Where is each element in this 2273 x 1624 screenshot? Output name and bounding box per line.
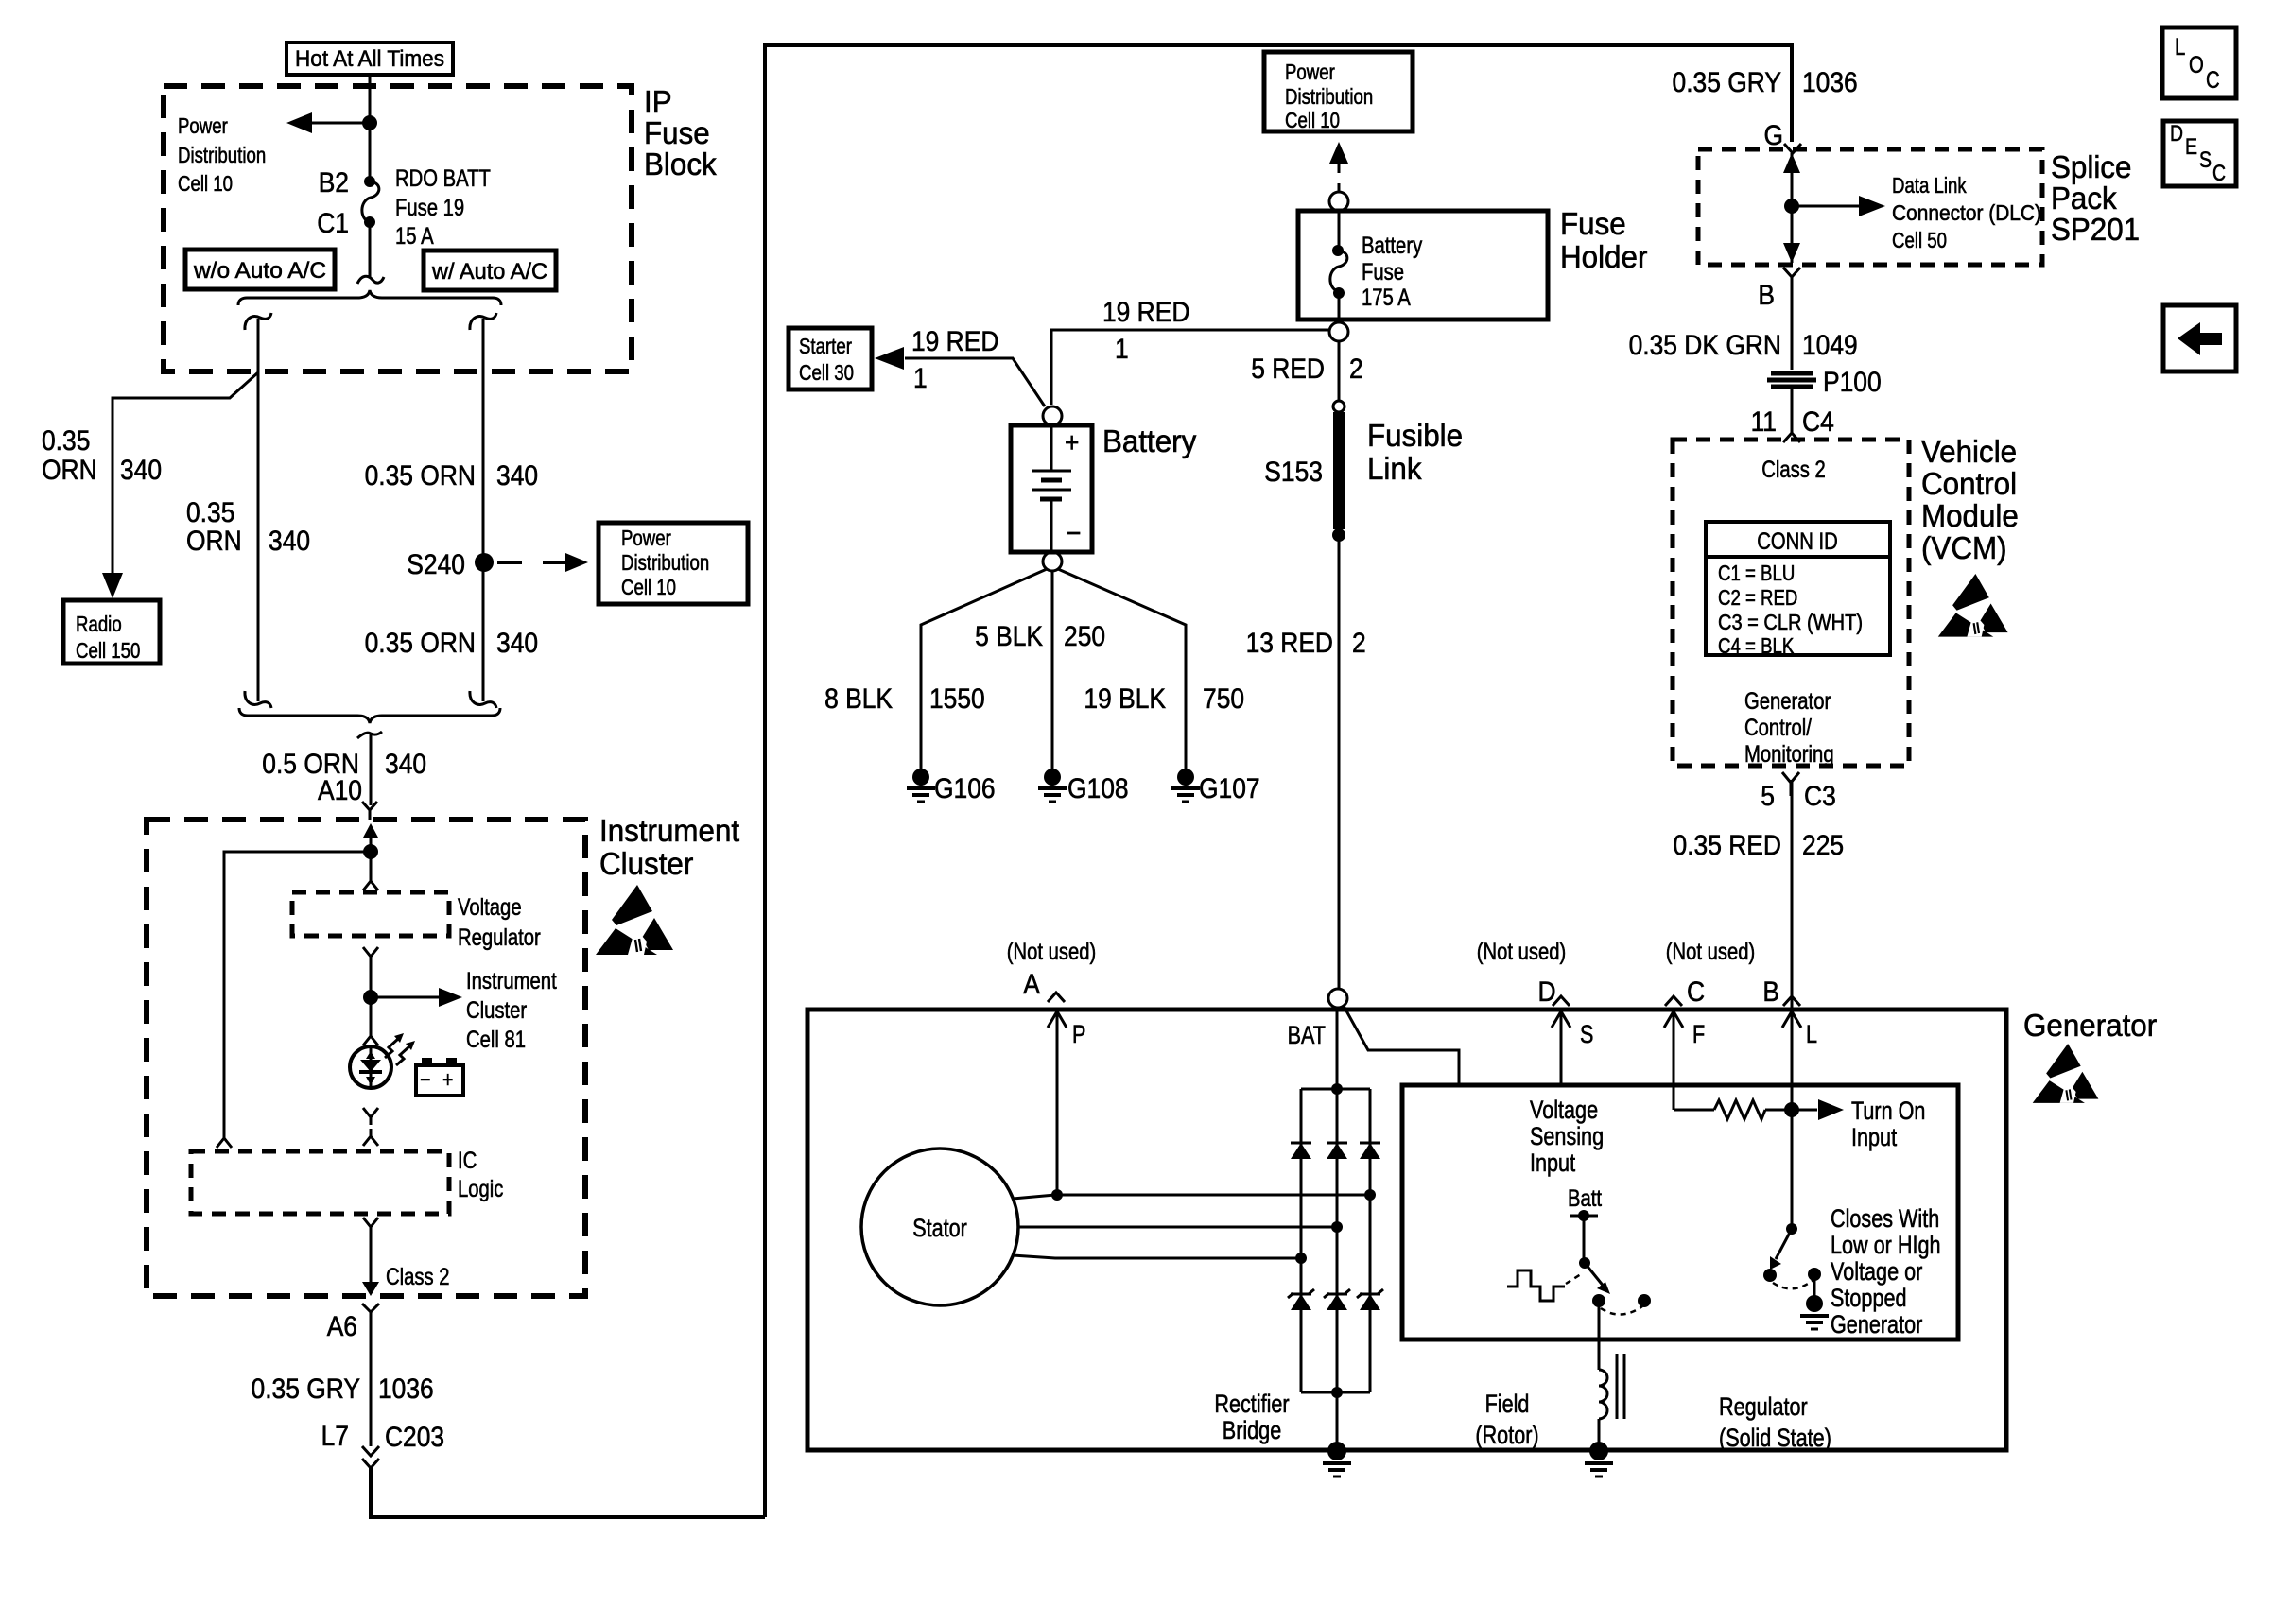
svg-text:w/ Auto A/C: w/ Auto A/C <box>431 259 547 285</box>
title Vehicle Control Module (VCM) <box>1921 434 2019 565</box>
left branch connector curl top <box>245 313 271 330</box>
wire 0.35 RED 225 down to generator <box>1791 780 1794 1008</box>
ESD symbol (instrument cluster) <box>596 885 673 955</box>
svg-text:0.35 ORN: 0.35 ORN <box>365 628 476 659</box>
label box "Hot At All Times" <box>286 43 453 75</box>
svg-text:B2: B2 <box>319 167 349 199</box>
svg-text:0.35 GRY: 0.35 GRY <box>252 1373 361 1405</box>
voltage regulator switch (field) <box>1579 1257 1651 1315</box>
svg-text:(Not used): (Not used) <box>1666 939 1756 965</box>
label 19 RED 1 (fuse holder line) <box>1102 297 1189 365</box>
dashed link square wave to switch <box>1566 1274 1581 1284</box>
entry arrow up on A10 wire <box>363 823 378 852</box>
svg-text:Data Link: Data Link <box>1892 173 1967 198</box>
node rectifier bottom <box>1331 1387 1343 1398</box>
svg-text:Battery: Battery <box>1102 423 1197 458</box>
svg-text:G106: G106 <box>934 773 996 804</box>
field coil (rotor) <box>1599 1354 1624 1419</box>
connector fork below LED <box>363 1108 378 1125</box>
svg-text:O: O <box>2189 52 2204 78</box>
svg-text:340: 340 <box>385 749 426 780</box>
svg-text:Instrument: Instrument <box>599 813 739 848</box>
svg-text:(Not used): (Not used) <box>1477 939 1567 965</box>
label 0.35 GRY 1036 <box>252 1373 434 1405</box>
label Turn On Input <box>1851 1097 1925 1151</box>
ground G106 <box>907 769 996 804</box>
battery negative terminal ring <box>1043 552 1062 571</box>
label 8 BLK 1550 <box>824 683 985 715</box>
svg-text:(Not used): (Not used) <box>1007 939 1097 965</box>
arrow to Instrument Cluster Cell 81 <box>371 988 462 1007</box>
connector fork above voltage regulator <box>363 873 378 890</box>
svg-text:1036: 1036 <box>1802 67 1858 98</box>
svg-text:Control/: Control/ <box>1744 715 1812 741</box>
diode top right <box>1360 1143 1380 1159</box>
svg-text:Input: Input <box>1851 1123 1897 1151</box>
label 0.35 ORN 340 (left wire) <box>186 497 310 557</box>
arrow to starter <box>875 347 904 370</box>
svg-text:A6: A6 <box>327 1311 357 1342</box>
svg-text:G108: G108 <box>1067 773 1129 804</box>
svg-text:Link: Link <box>1367 451 1422 486</box>
double chevron connector C203 <box>362 1446 379 1468</box>
svg-text:S240: S240 <box>407 549 465 580</box>
variant box "w/o Auto A/C" <box>185 250 335 289</box>
svg-text:−: − <box>1067 518 1081 549</box>
Voltage Regulator dashed box <box>292 892 449 936</box>
svg-text:Voltage: Voltage <box>1530 1096 1598 1124</box>
wire 13 RED 2 down to generator <box>1338 535 1341 989</box>
svg-text:G107: G107 <box>1199 773 1260 804</box>
diode top left <box>1291 1143 1311 1159</box>
svg-text:Logic: Logic <box>458 1176 503 1202</box>
arrow down inside splice <box>1783 243 1800 263</box>
node P junction <box>1051 1189 1063 1201</box>
svg-text:L: L <box>2175 34 2185 60</box>
svg-text:Voltage: Voltage <box>458 894 522 921</box>
Generator box <box>807 1010 2006 1450</box>
field wire from switch contact down <box>1598 1301 1601 1370</box>
svg-text:IP: IP <box>644 84 672 119</box>
LOC box <box>2162 27 2236 98</box>
wire from C203 to frame <box>371 1468 765 1517</box>
connector fork below IC logic <box>363 1218 378 1236</box>
node right rail <box>1364 1189 1376 1201</box>
node left rail <box>1295 1253 1307 1264</box>
svg-text:Cell 10: Cell 10 <box>621 575 676 599</box>
svg-text:5 BLK: 5 BLK <box>975 621 1043 652</box>
connector chevron below cluster <box>362 1304 379 1312</box>
svg-text:Input: Input <box>1530 1149 1575 1177</box>
title IP Fuse Block <box>644 84 717 181</box>
square wave symbol <box>1507 1270 1565 1301</box>
node L/turn-on junction <box>1784 1102 1799 1117</box>
svg-text:Distribution: Distribution <box>178 143 266 167</box>
right 0.35 ORN 340 wire (w/ A/C) <box>482 319 485 701</box>
svg-text:C203: C203 <box>385 1422 444 1453</box>
svg-text:1550: 1550 <box>929 683 985 715</box>
svg-text:Voltage or: Voltage or <box>1831 1257 1922 1286</box>
svg-text:−: − <box>420 1067 430 1093</box>
label 0.5 ORN 340 / A10 <box>262 749 426 806</box>
wire from Hot At All Times down to fuse <box>369 75 372 181</box>
label 19 RED 1 (starter line) <box>911 326 998 394</box>
svg-text:5 RED: 5 RED <box>1251 354 1325 385</box>
svg-text:P: P <box>1072 1020 1085 1048</box>
BAT terminal ring <box>1328 989 1347 1008</box>
right branch connector curl top <box>470 313 496 330</box>
stator wire middle to center column <box>1018 1226 1337 1229</box>
svg-text:Cell 150: Cell 150 <box>76 638 140 663</box>
svg-text:G: G <box>1764 120 1784 151</box>
fuse holder bottom terminal ring <box>1329 322 1348 341</box>
wire from regulator to LED <box>370 957 373 1032</box>
svg-text:B: B <box>1758 280 1775 311</box>
svg-text:Cell 30: Cell 30 <box>799 360 854 385</box>
arrow to DLC <box>1792 196 1885 216</box>
svg-text:(VCM): (VCM) <box>1921 530 2007 565</box>
back arrow box <box>2163 305 2236 371</box>
label 5 BLK 250 <box>975 621 1105 652</box>
grommet P100 <box>1767 367 1882 398</box>
svg-text:Stator: Stator <box>912 1214 967 1242</box>
right wire bottom curl <box>470 691 496 708</box>
svg-text:Distribution: Distribution <box>1285 84 1373 109</box>
Radio Cell 150 box <box>63 600 160 664</box>
wire 19 RED 1 to starter <box>905 358 1045 406</box>
svg-text:(Solid State): (Solid State) <box>1719 1424 1831 1452</box>
Power Distribution Cell 10 box (top middle) <box>1264 52 1413 132</box>
svg-text:0.35 GRY: 0.35 GRY <box>1673 67 1782 98</box>
dashed arrow from S240 to Power Distribution box <box>497 553 588 572</box>
ESD symbol (VCM) <box>1938 574 2008 637</box>
label Instrument Cluster Cell 81 <box>466 968 557 1053</box>
svg-text:2: 2 <box>1349 354 1363 385</box>
svg-text:C1: C1 <box>317 208 349 239</box>
ground at rectifier <box>1323 1442 1351 1477</box>
svg-text:5: 5 <box>1761 781 1775 812</box>
wire from fuse holder down to fusible link <box>1338 341 1341 401</box>
connector brace (lower, pointing down) <box>239 708 500 723</box>
pin P arrow inside generator <box>1048 1011 1085 1195</box>
svg-text:BAT: BAT <box>1288 1021 1326 1049</box>
svg-text:Fuse: Fuse <box>1560 206 1626 241</box>
connector chevron below splice <box>1783 268 1800 277</box>
svg-text:Cluster: Cluster <box>466 997 527 1024</box>
label Voltage Regulator <box>458 894 541 951</box>
svg-text:C: C <box>2206 67 2220 94</box>
battery indicator icon <box>416 1058 463 1096</box>
svg-text:Regulator: Regulator <box>458 924 541 951</box>
svg-text:Closes With: Closes With <box>1831 1204 1939 1233</box>
svg-text:S: S <box>2199 147 2212 173</box>
connector fork below voltage regulator <box>363 947 378 966</box>
stator wire lower to left rail <box>1013 1255 1301 1258</box>
svg-text:P100: P100 <box>1823 367 1882 398</box>
pin D label + chevron <box>1537 976 1570 1008</box>
connector fork below VCM <box>1782 772 1799 796</box>
label Rectifier Bridge <box>1214 1390 1289 1444</box>
label Generator Control/ Monitoring <box>1744 688 1834 768</box>
svg-text:Bridge: Bridge <box>1223 1416 1281 1444</box>
svg-text:SP201: SP201 <box>2051 212 2140 247</box>
stator wire upper to right rail <box>1013 1195 1368 1199</box>
svg-text:Power: Power <box>178 113 228 138</box>
label 13 RED 2 <box>1246 628 1366 659</box>
branch to radio: diagonal + horizontal + down <box>113 372 258 577</box>
svg-text:Regulator: Regulator <box>1719 1392 1808 1421</box>
svg-text:Distribution: Distribution <box>621 550 709 575</box>
svg-text:A: A <box>1023 969 1040 1000</box>
svg-text:Generator: Generator <box>1744 688 1831 715</box>
title Fuse Holder <box>1560 206 1647 274</box>
svg-text:0.35 DK GRN: 0.35 DK GRN <box>1629 330 1781 361</box>
label Regulator (Solid State) <box>1719 1392 1831 1452</box>
svg-text:Module: Module <box>1921 498 2019 533</box>
wire BAT down through rectifier <box>1336 1008 1339 1450</box>
svg-text:IC: IC <box>458 1148 477 1174</box>
svg-text:1036: 1036 <box>378 1373 434 1405</box>
wire arrow to Power Distribution Cell 10 (left) <box>286 112 370 133</box>
svg-text:C4: C4 <box>1802 406 1834 438</box>
label Data Link Connector (DLC) Cell 50 <box>1892 173 2041 252</box>
svg-text:Batt: Batt <box>1568 1185 1602 1212</box>
connector A10 fork above cluster <box>362 802 377 820</box>
arrow up to Power Distribution <box>1329 142 1348 192</box>
pin L arrow <box>1782 1011 1817 1229</box>
svg-text:11: 11 <box>1751 406 1777 438</box>
connector fork into VCM <box>1783 427 1800 442</box>
svg-text:Monitoring: Monitoring <box>1744 741 1834 768</box>
wire from fuse down with connector curl <box>357 222 384 284</box>
svg-text:19 RED: 19 RED <box>911 326 998 357</box>
variant box "w/ Auto A/C" <box>424 251 556 290</box>
pin S arrow <box>1552 1011 1593 1085</box>
svg-text:0.35 ORN: 0.35 ORN <box>365 460 476 492</box>
svg-text:Fuse: Fuse <box>1362 259 1404 285</box>
IC Logic dashed box <box>191 1151 449 1214</box>
svg-text:C3: C3 <box>1804 781 1836 812</box>
label 0.35 ORN 340 (radio branch) <box>42 425 162 486</box>
svg-text:250: 250 <box>1064 621 1105 652</box>
svg-text:Class 2: Class 2 <box>386 1264 450 1290</box>
svg-text:C4 = BLK: C4 = BLK <box>1718 633 1795 658</box>
splice S240 <box>407 549 494 580</box>
svg-text:C1 = BLU: C1 = BLU <box>1718 561 1795 585</box>
L switch <box>1763 1223 1829 1329</box>
rectifier bridge rails <box>1301 1089 1370 1392</box>
svg-text:w/o Auto A/C: w/o Auto A/C <box>193 258 326 284</box>
left 0.35 ORN 340 wire (w/o A/C) <box>257 319 260 701</box>
VCM dashed box <box>1673 440 1909 766</box>
svg-text:Splice: Splice <box>2051 149 2131 184</box>
svg-text:Power: Power <box>621 526 671 550</box>
svg-text:Fuse 19: Fuse 19 <box>395 195 464 221</box>
resistor and turn-on line <box>1674 1099 1844 1120</box>
arrow into Radio box <box>102 573 123 598</box>
label 0.35 ORN 340 (right wire lower) <box>365 628 539 659</box>
svg-text:Class 2: Class 2 <box>1761 457 1826 483</box>
fuse value label RDO BATT Fuse 19 15 A <box>395 165 491 250</box>
svg-text:Cell 10: Cell 10 <box>1285 108 1340 132</box>
svg-text:+: + <box>1065 427 1079 458</box>
battery positive terminal ring <box>1043 406 1062 425</box>
node junction inside cluster <box>363 844 378 859</box>
Stator circle <box>861 1149 1018 1305</box>
svg-text:RDO BATT: RDO BATT <box>395 165 491 192</box>
svg-text:340: 340 <box>496 460 538 492</box>
0.35 GRY 1036 wire down <box>370 1312 373 1446</box>
wire down to voltage regulator <box>370 852 373 877</box>
frame wire left/top/right <box>765 45 1792 1517</box>
DESC box <box>2163 121 2236 186</box>
svg-text:Power: Power <box>1285 60 1335 84</box>
title Instrument Cluster <box>599 813 739 881</box>
svg-text:Stopped: Stopped <box>1831 1284 1907 1312</box>
CONN ID table <box>1706 522 1890 658</box>
zener diode bottom center <box>1324 1289 1350 1310</box>
ground at field <box>1585 1442 1613 1477</box>
svg-text:E: E <box>2185 134 2197 160</box>
left wire bottom curl <box>245 691 271 708</box>
svg-text:A10: A10 <box>318 775 362 806</box>
LED light arrows <box>385 1033 415 1065</box>
label 0.35 RED 225 <box>1674 830 1845 861</box>
svg-text:0.35: 0.35 <box>186 497 234 528</box>
svg-text:+: + <box>442 1067 453 1093</box>
svg-text:S153: S153 <box>1264 457 1323 488</box>
wire 0.35 DK GRN 1049 <box>1791 277 1794 370</box>
branch from BAT to regulator <box>1344 1006 1459 1085</box>
connector C3 labels <box>1761 781 1836 812</box>
svg-text:Low or HIgh: Low or HIgh <box>1831 1231 1941 1259</box>
svg-text:340: 340 <box>496 628 538 659</box>
svg-text:CONN ID: CONN ID <box>1757 528 1838 555</box>
label Closes With Low or HIgh Voltage or Stopped Generator <box>1831 1204 1941 1339</box>
node junction on feed wire <box>362 115 377 130</box>
fuse F19 RDO BATT symbol <box>362 176 379 228</box>
svg-text:C: C <box>2212 161 2226 186</box>
label Battery Fuse 175 A <box>1362 233 1423 311</box>
Starter Cell 30 box <box>789 328 872 389</box>
exit arrow down at cluster edge <box>362 1282 379 1296</box>
svg-text:Hot At All Times: Hot At All Times <box>295 46 444 72</box>
label 0.35 DK GRN 1049 <box>1629 330 1858 361</box>
fuse holder top terminal ring <box>1329 192 1348 211</box>
svg-text:(Rotor): (Rotor) <box>1475 1421 1538 1449</box>
svg-text:Rectifier: Rectifier <box>1214 1390 1289 1418</box>
svg-text:Field: Field <box>1485 1390 1530 1418</box>
battery fuse 175A symbol <box>1330 211 1347 322</box>
svg-text:C3 = CLR (WHT): C3 = CLR (WHT) <box>1718 610 1863 634</box>
text Power Distribution Cell 10 (in fuse block) <box>178 113 266 196</box>
svg-text:Fuse: Fuse <box>644 115 710 150</box>
connector fork above LED <box>363 1032 378 1045</box>
svg-text:B: B <box>1762 976 1779 1008</box>
svg-text:Block: Block <box>644 147 717 181</box>
svg-text:D: D <box>2170 121 2183 147</box>
svg-text:175 A: 175 A <box>1362 285 1411 311</box>
svg-text:Radio: Radio <box>76 612 122 636</box>
svg-text:Holder: Holder <box>1560 239 1647 274</box>
connector C203 labels L7 <box>321 1421 445 1453</box>
svg-text:1: 1 <box>1115 334 1129 365</box>
pin F arrow <box>1664 1011 1705 1110</box>
ground wires from battery negative <box>921 569 1047 769</box>
svg-text:19 RED: 19 RED <box>1102 297 1189 328</box>
svg-text:13 RED: 13 RED <box>1246 628 1333 659</box>
svg-text:340: 340 <box>269 526 310 557</box>
svg-text:Sensing: Sensing <box>1530 1122 1604 1150</box>
svg-text:750: 750 <box>1203 683 1244 715</box>
svg-text:L7: L7 <box>321 1421 349 1452</box>
ESD symbol (generator) <box>2033 1044 2099 1103</box>
svg-text:Generator: Generator <box>2023 1008 2157 1043</box>
svg-text:Connector (DLC): Connector (DLC) <box>1892 200 2041 225</box>
node rectifier top <box>1331 1083 1343 1095</box>
label 19 BLK 750 <box>1084 683 1244 715</box>
wire 19 RED 1 to battery <box>1051 330 1329 405</box>
title Fusible Link <box>1367 418 1463 486</box>
svg-text:ORN: ORN <box>186 526 242 557</box>
svg-text:C2 = RED: C2 = RED <box>1718 585 1797 610</box>
wire to VCM <box>1791 387 1794 435</box>
svg-text:1: 1 <box>913 363 928 394</box>
title Splice Pack SP201 <box>2051 149 2140 247</box>
svg-text:Control: Control <box>1921 466 2017 501</box>
Power Distribution Cell 10 box (right of S240) <box>599 523 748 604</box>
branch wire to left and down to IC logic <box>224 852 371 1131</box>
svg-text:340: 340 <box>120 455 162 486</box>
svg-text:Cell 81: Cell 81 <box>466 1027 526 1053</box>
pin B label + chevron <box>1762 976 1800 1008</box>
splice wire through box <box>1791 153 1794 263</box>
svg-text:15 A: 15 A <box>395 223 434 250</box>
svg-text:2: 2 <box>1352 628 1366 659</box>
svg-text:0.35: 0.35 <box>42 425 90 457</box>
svg-text:0.35 RED: 0.35 RED <box>1674 830 1782 861</box>
IP Fuse Block dashed box <box>164 86 632 371</box>
Instrument Cluster dashed box <box>147 820 585 1296</box>
svg-text:L: L <box>1806 1020 1817 1048</box>
svg-text:Generator: Generator <box>1831 1310 1922 1339</box>
svg-text:Battery: Battery <box>1362 233 1423 259</box>
pin A label + chevron <box>1023 969 1065 1002</box>
arrow up inside splice <box>1783 153 1800 173</box>
svg-text:Cell 50: Cell 50 <box>1892 228 1947 252</box>
battery <box>1011 425 1092 552</box>
wire from coil to ground <box>1598 1419 1601 1450</box>
svg-text:Cell 10: Cell 10 <box>178 171 233 196</box>
label 0.35 ORN 340 (right wire upper) <box>365 460 539 492</box>
label 5 RED 2 <box>1251 354 1363 385</box>
svg-text:8 BLK: 8 BLK <box>824 683 893 715</box>
svg-text:Starter: Starter <box>799 334 852 358</box>
svg-text:Fusible: Fusible <box>1367 418 1463 453</box>
svg-text:Pack: Pack <box>2051 181 2117 216</box>
class 2 wire down to A6 <box>370 1227 373 1291</box>
svg-text:S: S <box>1580 1020 1593 1048</box>
connector fork into IC logic (left branch) <box>217 1131 232 1148</box>
fusible link S153 <box>1332 401 1345 542</box>
ground G108 <box>1038 769 1129 804</box>
pin C label + chevron <box>1665 976 1705 1008</box>
LED indicator lamp <box>350 1046 391 1088</box>
svg-text:Cluster: Cluster <box>599 846 693 881</box>
svg-text:Instrument: Instrument <box>466 968 557 994</box>
connector fork above IC logic <box>363 1129 378 1146</box>
node junction at cell81 branch <box>363 990 378 1005</box>
